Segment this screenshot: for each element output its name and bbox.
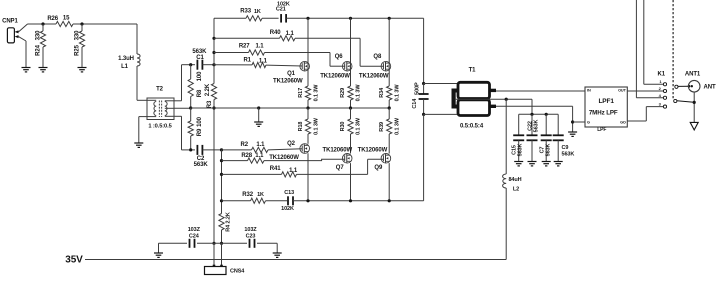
node — [257, 106, 260, 109]
node — [349, 106, 352, 109]
svg-text:R8: R8 — [197, 89, 203, 97]
svg-text:500P: 500P — [414, 82, 420, 95]
node — [505, 98, 508, 101]
wire — [286, 17, 424, 19]
node — [530, 113, 533, 116]
svg-text:R28: R28 — [241, 153, 252, 159]
wire ladder rail — [519, 113, 559, 115]
svg-text:TK12060W: TK12060W — [358, 147, 388, 153]
svg-text:K1: K1 — [658, 72, 666, 78]
capacitor C15 — [511, 114, 524, 161]
ground antenna — [690, 122, 698, 129]
wire — [368, 159, 384, 174]
transistor Q2 — [269, 141, 309, 201]
wire — [19, 37, 27, 68]
transistor Q9 — [358, 147, 391, 201]
svg-text:C23: C23 — [246, 233, 256, 239]
net 35V — [65, 255, 506, 266]
wire drain rail bottom — [293, 200, 424, 202]
node — [189, 63, 192, 66]
svg-text:C9: C9 — [562, 145, 569, 151]
svg-text:R1: R1 — [243, 58, 251, 64]
connector ANT1 — [685, 72, 716, 92]
ground — [154, 243, 163, 257]
svg-text:LPF1: LPF1 — [598, 98, 614, 105]
svg-text:R9: R9 — [197, 128, 203, 136]
resistor R26 — [47, 16, 73, 27]
svg-text:R2: R2 — [241, 142, 249, 148]
node — [189, 148, 192, 151]
wire — [573, 121, 585, 123]
svg-text:563K: 563K — [194, 162, 209, 168]
svg-text:R29: R29 — [340, 88, 346, 98]
svg-text:TK12060W: TK12060W — [320, 73, 350, 79]
svg-text:1.1: 1.1 — [289, 168, 298, 174]
svg-text:15: 15 — [63, 16, 70, 22]
node — [388, 17, 391, 20]
svg-text:R27: R27 — [239, 43, 250, 49]
svg-text:R32: R32 — [242, 192, 253, 198]
resistor R9 — [188, 108, 203, 150]
wire — [693, 92, 695, 122]
svg-text:OUT: OUT — [618, 88, 626, 92]
wire — [423, 114, 425, 200]
svg-text:2.2K: 2.2K — [205, 83, 211, 96]
svg-text:35V: 35V — [65, 255, 83, 266]
svg-text:Q8: Q8 — [373, 54, 382, 60]
svg-text:IN: IN — [587, 88, 591, 92]
wire — [28, 23, 57, 25]
transformer T2 — [147, 87, 174, 130]
resistor R2 — [222, 142, 303, 152]
inductor L2 — [503, 99, 522, 259]
resistor R33 — [240, 9, 262, 21]
wire — [423, 18, 425, 83]
resistor R27 — [214, 43, 330, 55]
wire — [221, 243, 223, 266]
svg-text:1.1: 1.1 — [256, 142, 265, 148]
wire — [330, 53, 345, 67]
node — [571, 120, 574, 123]
svg-text:R3: R3 — [207, 100, 213, 108]
ground — [254, 122, 263, 126]
wire — [360, 38, 384, 66]
resistor R32 — [222, 192, 288, 204]
svg-text:84uH: 84uH — [508, 177, 521, 183]
node — [212, 63, 215, 66]
node — [388, 106, 391, 109]
svg-text:L2: L2 — [513, 187, 519, 193]
svg-text:100: 100 — [197, 71, 203, 81]
svg-text:0.1 3W: 0.1 3W — [355, 117, 361, 135]
svg-text:Q9: Q9 — [374, 165, 383, 171]
node — [349, 199, 352, 202]
svg-text:1.1: 1.1 — [255, 153, 264, 159]
node — [80, 22, 83, 25]
relay K1 coupling — [672, 0, 674, 100]
ground — [568, 132, 577, 136]
svg-text:R41: R41 — [270, 166, 281, 172]
resistor R18 — [298, 108, 319, 144]
relay K1 arm upper — [675, 85, 690, 89]
wire — [424, 113, 458, 115]
resistor R30 — [340, 108, 361, 154]
svg-text:T2: T2 — [156, 87, 164, 93]
resistor R40 — [214, 30, 360, 41]
svg-text:0.1 3W: 0.1 3W — [355, 84, 361, 102]
svg-text:563K: 563K — [533, 119, 539, 132]
svg-text:ANT1: ANT1 — [685, 72, 701, 78]
svg-text:R30: R30 — [340, 122, 346, 132]
svg-text:100: 100 — [197, 116, 203, 126]
svg-text:103Z: 103Z — [188, 227, 201, 233]
wire bias rail lower — [221, 150, 223, 214]
node — [212, 37, 215, 40]
svg-text:R17: R17 — [298, 88, 304, 98]
capacitor C14 — [412, 82, 429, 114]
svg-text:0.1 3W: 0.1 3W — [394, 84, 400, 102]
ground — [528, 162, 537, 166]
transistor Q8 — [359, 18, 391, 86]
capacitor C22 — [527, 114, 540, 161]
capacitor C13 — [281, 190, 294, 212]
svg-text:563K: 563K — [517, 143, 523, 156]
svg-text:Q7: Q7 — [336, 165, 345, 171]
svg-text:1.3uH: 1.3uH — [118, 56, 134, 62]
wire — [257, 242, 277, 244]
wire — [19, 24, 28, 32]
ground — [22, 68, 31, 72]
svg-text:TK12060W: TK12060W — [273, 79, 303, 85]
capacitor C9 — [553, 114, 575, 161]
capacitor C1 — [192, 49, 214, 69]
resistor R8 — [188, 65, 203, 108]
inductor L1 — [118, 54, 140, 70]
node — [220, 242, 223, 245]
svg-text:102K: 102K — [281, 206, 294, 212]
resistor R3 — [205, 83, 217, 108]
node — [220, 199, 223, 202]
transistor Q7 — [323, 147, 353, 201]
svg-text:330: 330 — [35, 30, 41, 40]
svg-text:1K: 1K — [254, 9, 261, 15]
ground — [78, 68, 87, 72]
wire — [627, 107, 663, 121]
node — [220, 173, 223, 176]
resistor R41 — [222, 166, 368, 177]
wire — [137, 66, 147, 100]
resistor R24 — [35, 24, 45, 68]
svg-text:R33: R33 — [240, 9, 251, 15]
svg-text:1.1: 1.1 — [259, 58, 268, 64]
svg-text:GO: GO — [620, 121, 626, 125]
wire — [424, 83, 458, 85]
connector CNP1 — [2, 19, 18, 43]
svg-text:103Z: 103Z — [244, 227, 257, 233]
svg-text:Q2: Q2 — [287, 141, 296, 147]
wire — [213, 243, 215, 266]
svg-text:1K: 1K — [257, 192, 264, 198]
node — [349, 17, 352, 20]
node — [693, 101, 696, 104]
svg-text:ANT: ANT — [704, 85, 716, 91]
svg-text:R25: R25 — [74, 44, 80, 55]
node — [545, 113, 548, 116]
wire mid rail — [191, 107, 390, 109]
wire — [644, 0, 663, 84]
svg-text:1 :0.5:0.5: 1 :0.5:0.5 — [148, 124, 171, 130]
wire T1 centre tap — [490, 99, 532, 114]
svg-text:7MHz LPF: 7MHz LPF — [589, 109, 618, 116]
wire — [174, 116, 195, 150]
relay K1 arm lower — [674, 99, 694, 102]
wire — [627, 90, 663, 92]
resistor R29 — [340, 84, 361, 108]
svg-text:TK12060W: TK12060W — [323, 147, 353, 153]
svg-text:C21: C21 — [276, 7, 286, 13]
wire — [73, 23, 137, 25]
ground — [542, 162, 551, 166]
svg-text:T1: T1 — [469, 68, 477, 74]
wire — [174, 107, 191, 109]
node — [212, 242, 215, 245]
svg-text:CNS4: CNS4 — [230, 269, 245, 275]
svg-text:R39: R39 — [379, 122, 385, 132]
svg-text:0.1 3W: 0.1 3W — [394, 117, 400, 135]
wire — [139, 117, 147, 143]
resistor R34 — [379, 84, 400, 108]
node — [212, 51, 215, 54]
wire — [496, 106, 573, 132]
transistor Q6 — [320, 18, 352, 86]
node — [422, 82, 425, 85]
svg-text:C1: C1 — [196, 55, 204, 61]
ground — [134, 143, 143, 147]
svg-text:1.1: 1.1 — [255, 43, 264, 49]
ground — [273, 243, 282, 257]
resistor R25 — [74, 24, 84, 68]
node — [220, 159, 223, 162]
filter LPF1 — [585, 87, 627, 133]
relay K1 contacts — [658, 72, 667, 109]
resistor R39 — [379, 108, 400, 154]
node — [422, 113, 425, 116]
wire — [174, 65, 195, 101]
svg-text:0.1 3W: 0.1 3W — [313, 84, 319, 102]
node — [189, 106, 192, 109]
wire — [636, 0, 663, 98]
capacitor C24 — [188, 227, 201, 248]
ground — [39, 68, 48, 72]
ground — [514, 162, 523, 166]
svg-text:C24: C24 — [189, 233, 200, 239]
node — [306, 106, 309, 109]
svg-text:CNP1: CNP1 — [2, 19, 18, 25]
svg-text:563K: 563K — [545, 143, 551, 156]
node — [41, 22, 44, 25]
svg-text:C13: C13 — [284, 190, 294, 196]
capacitor C21 — [276, 1, 290, 22]
svg-text:0.5:0.5:4: 0.5:0.5:4 — [460, 124, 484, 130]
svg-text:G: G — [587, 121, 590, 125]
svg-text:563K: 563K — [562, 152, 575, 158]
svg-text:R34: R34 — [379, 87, 385, 98]
svg-text:Q6: Q6 — [335, 54, 344, 60]
resistor R28 — [222, 153, 346, 163]
wire — [136, 24, 138, 54]
svg-text:C15: C15 — [511, 145, 517, 155]
resistor R17 — [298, 84, 319, 108]
node — [306, 199, 309, 202]
svg-text:R18: R18 — [298, 122, 304, 132]
wire bias rail upper — [213, 18, 215, 83]
svg-text:R26: R26 — [47, 16, 58, 22]
wire drain rail top — [214, 17, 246, 19]
node — [306, 17, 309, 20]
resistor R1 — [214, 58, 303, 68]
svg-text:R24: R24 — [35, 44, 41, 55]
wire — [159, 242, 188, 244]
wire — [197, 242, 247, 244]
wire — [496, 90, 585, 92]
wire — [262, 17, 279, 19]
ground — [554, 162, 563, 166]
wire center rail — [213, 100, 215, 244]
node — [388, 199, 391, 202]
svg-text:1.1: 1.1 — [286, 31, 295, 37]
svg-text:330: 330 — [74, 30, 80, 40]
transformer T1 — [452, 68, 497, 130]
transistor Q1 — [273, 18, 309, 86]
svg-text:0.1 3W: 0.1 3W — [313, 117, 319, 135]
svg-text:LPF: LPF — [597, 127, 606, 133]
capacitor C2 — [194, 145, 222, 168]
svg-text:C14: C14 — [412, 98, 418, 109]
resistor R4 — [219, 212, 231, 243]
svg-text:R4 2.2K: R4 2.2K — [225, 212, 231, 232]
node — [220, 148, 223, 151]
svg-text:R40: R40 — [270, 30, 281, 36]
connector CNS4 — [205, 265, 246, 275]
capacitor C23 — [244, 227, 257, 248]
node — [212, 106, 215, 109]
svg-text:Q1: Q1 — [287, 71, 296, 77]
svg-text:L1: L1 — [121, 64, 129, 70]
wire — [258, 108, 260, 122]
capacitor C7 — [539, 114, 551, 161]
svg-text:TK12060W: TK12060W — [359, 73, 389, 79]
